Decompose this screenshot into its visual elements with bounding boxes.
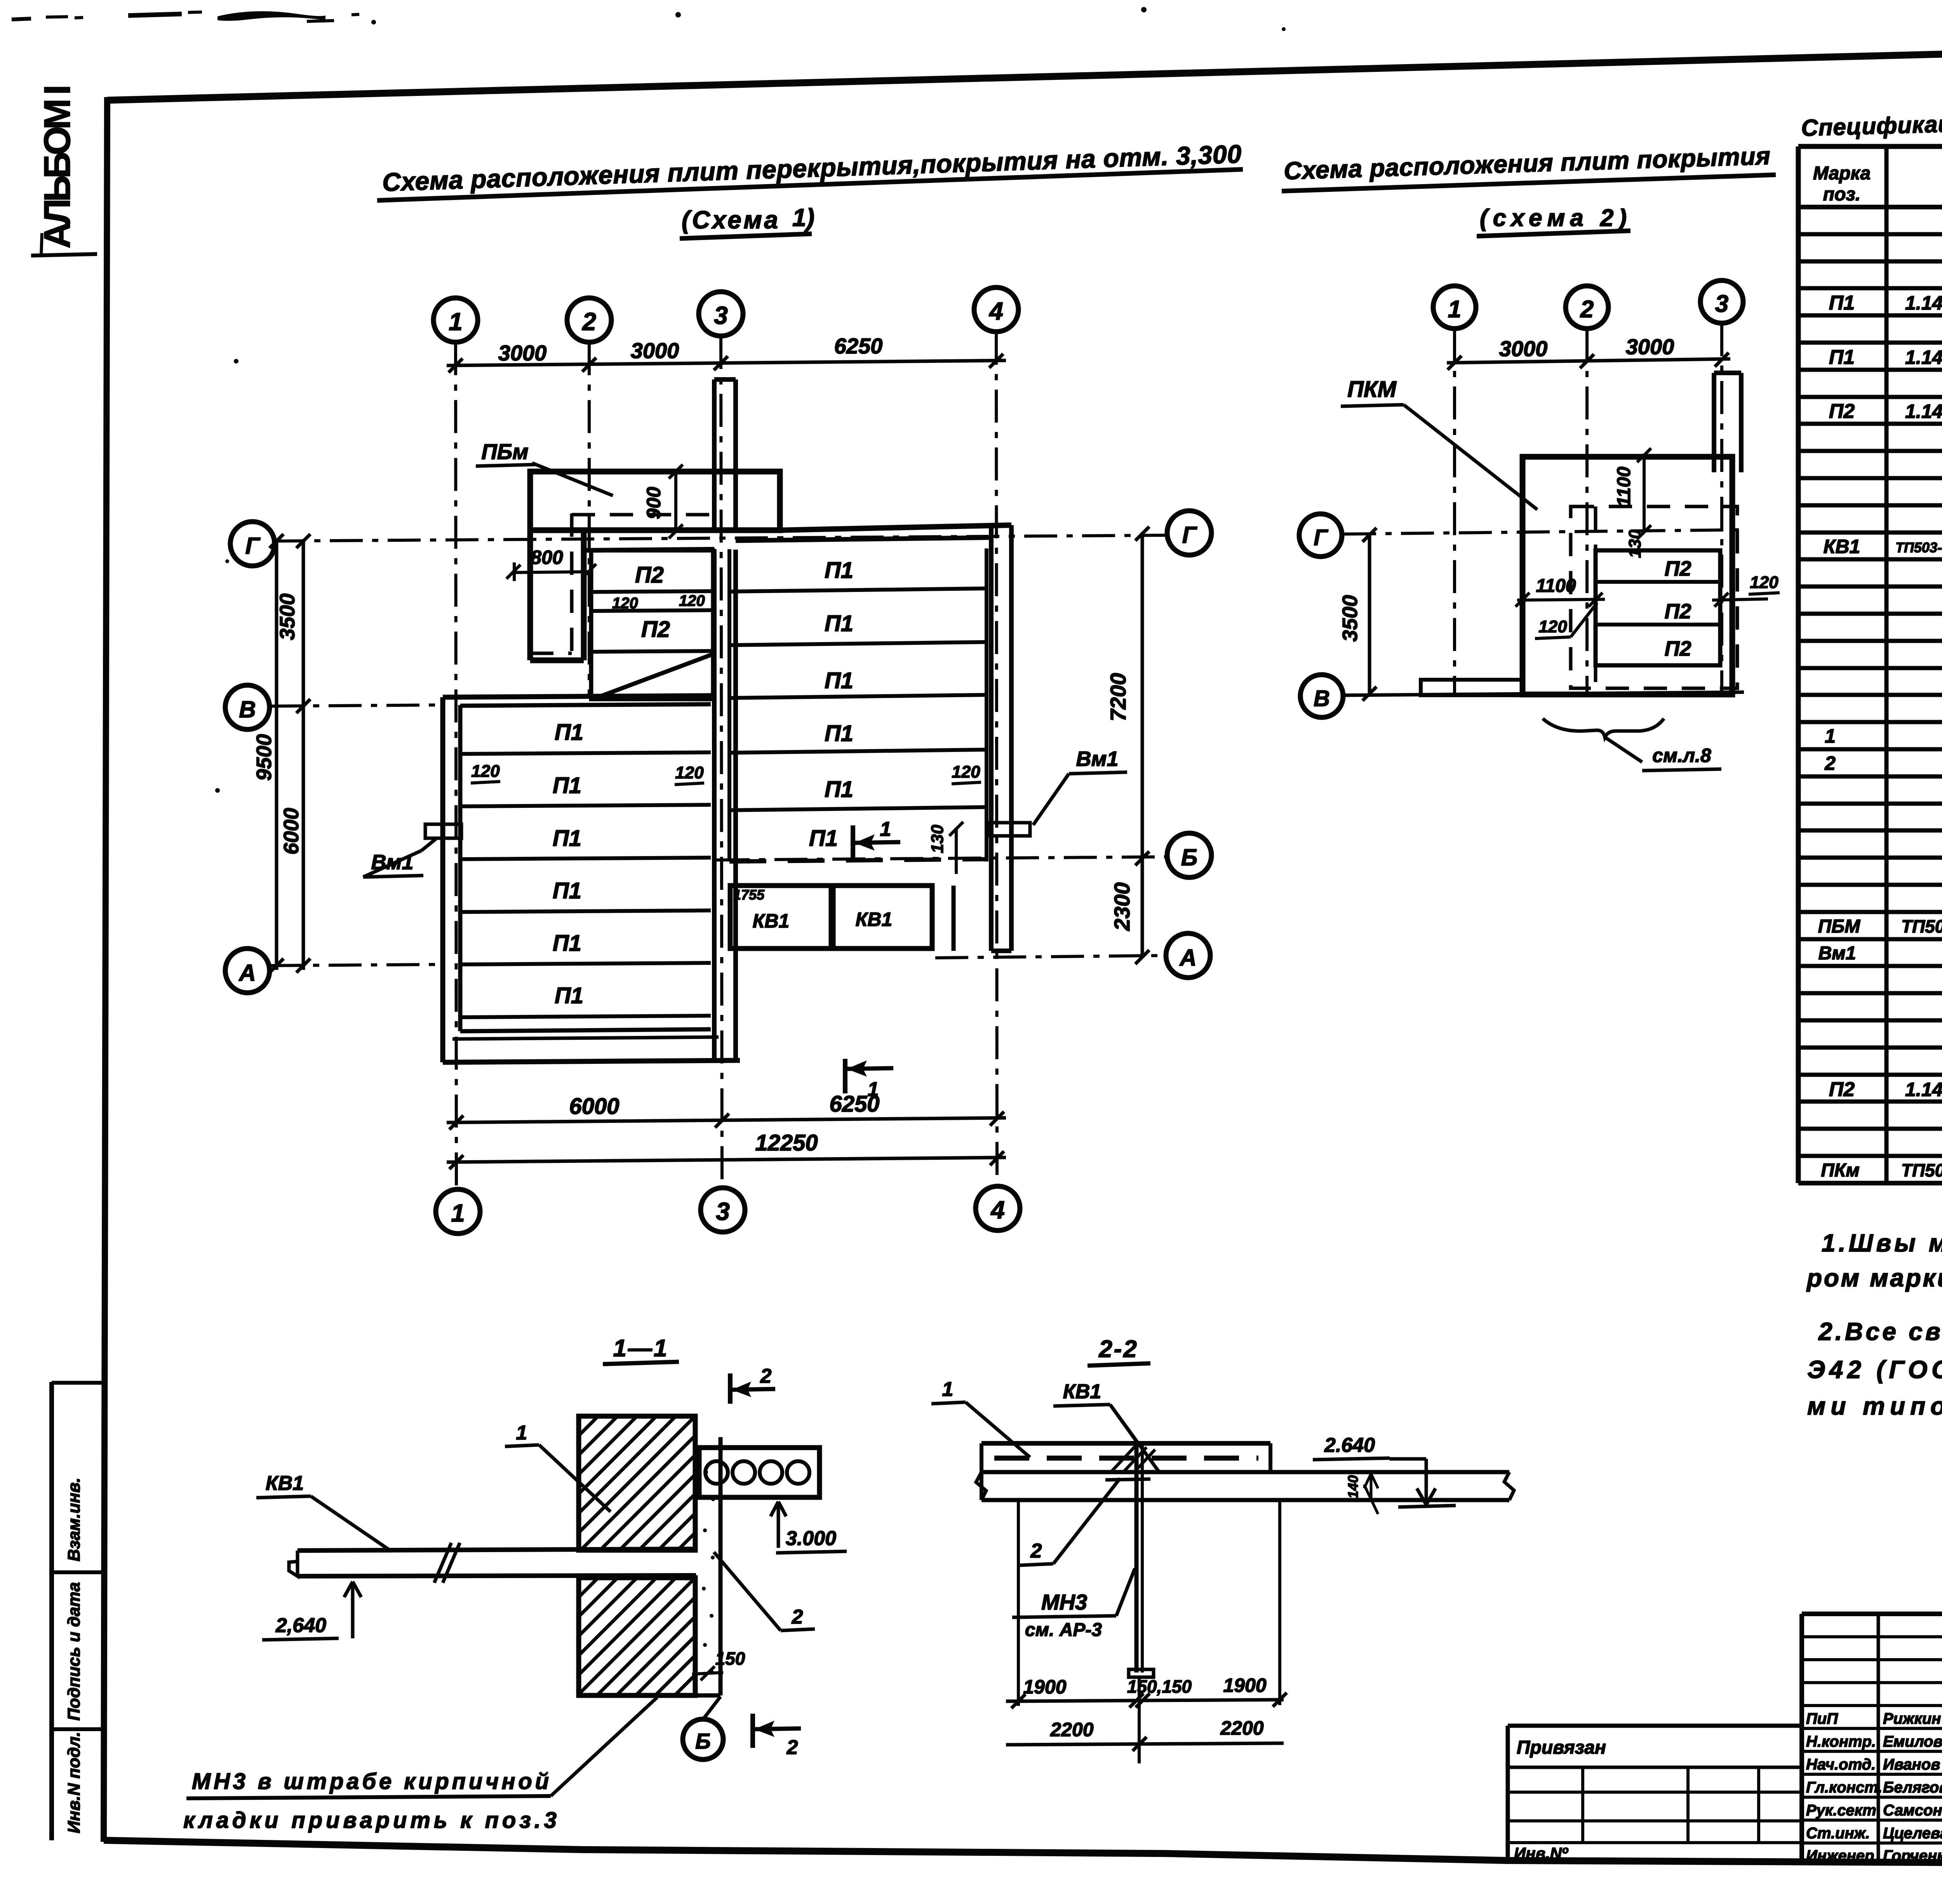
svg-text:П1: П1 xyxy=(553,878,581,903)
svg-text:В: В xyxy=(239,696,256,722)
axis 2 vertical dash-dot xyxy=(588,342,591,697)
s2 axis circle 3 xyxy=(1700,280,1743,323)
svg-text:(схема 2): (схема 2) xyxy=(1480,205,1627,231)
svg-text:1: 1 xyxy=(1825,725,1836,747)
s2 hidden wall dashed rect xyxy=(1571,506,1737,688)
svg-text:МН3: МН3 xyxy=(1041,1590,1087,1614)
s2 top dim line xyxy=(1447,359,1730,363)
left room P1 separators xyxy=(460,752,711,754)
left room bottom wall xyxy=(460,1029,711,1031)
svg-text:(Схема: (Схема xyxy=(682,206,779,234)
svg-text:П1: П1 xyxy=(1829,346,1855,369)
s2 dim 1100 vertical xyxy=(1643,454,1646,533)
left dim line outer 9500 xyxy=(275,539,278,970)
svg-text:Г: Г xyxy=(1314,525,1328,550)
svg-text:2200: 2200 xyxy=(1050,1719,1093,1740)
svg-text:Рук.сект: Рук.сект xyxy=(1806,1802,1876,1819)
svg-text:Ст.инж.: Ст.инж. xyxy=(1806,1825,1870,1842)
svg-text:Подпись и дата: Подпись и дата xyxy=(64,1582,84,1721)
s2 porch step xyxy=(1421,680,1523,695)
svg-text:Г: Г xyxy=(245,533,261,559)
2-2 hatch at KV1 bearing xyxy=(1112,1446,1155,1471)
svg-text:см. АР-3: см. АР-3 xyxy=(1025,1620,1102,1640)
PBM leader xyxy=(532,463,613,496)
s2 axis V line xyxy=(1344,692,1744,695)
svg-text:2: 2 xyxy=(1580,296,1594,323)
svg-text:Инв.N подл.: Инв.N подл. xyxy=(64,1732,84,1833)
svg-text:140: 140 xyxy=(1345,1475,1361,1498)
svg-text:3000: 3000 xyxy=(1499,336,1548,361)
svg-text:П1: П1 xyxy=(809,826,838,851)
svg-text:120: 120 xyxy=(675,763,704,782)
chimney strip on axis 3 xyxy=(712,379,717,530)
schema 2 subtitle underline xyxy=(1477,231,1631,236)
2-2 MN3 anchor vertical xyxy=(1135,1444,1139,1673)
svg-text:2-2: 2-2 xyxy=(1098,1336,1138,1363)
svg-text:1900: 1900 xyxy=(1023,1676,1066,1698)
svg-text:ПБм: ПБм xyxy=(481,439,528,464)
svg-text:В: В xyxy=(1314,686,1330,711)
s2 hidden wall dashed vertical xyxy=(1594,506,1597,688)
svg-text:2: 2 xyxy=(582,308,596,336)
svg-text:П1: П1 xyxy=(553,773,581,798)
svg-text:2.640: 2.640 xyxy=(1324,1434,1375,1457)
svg-text:КВ1: КВ1 xyxy=(1824,536,1860,557)
svg-text:ТП503-9-5.84ЮКИ1-КВ22а: ТП503-9-5.84ЮКИ1-КВ22а xyxy=(1895,537,1942,555)
section mark 1 below plan xyxy=(843,1059,847,1093)
sloped plate diagonal xyxy=(593,654,713,698)
s2 axis circle 2 xyxy=(1566,286,1608,329)
svg-text:П1: П1 xyxy=(553,826,581,851)
svg-text:поз.: поз. xyxy=(1823,184,1860,205)
top dimension line xyxy=(447,360,1006,365)
svg-text:А: А xyxy=(238,960,256,986)
svg-text:4: 4 xyxy=(988,297,1003,325)
drain Vm1 right stub xyxy=(990,823,1030,836)
section mark 2 bottom detail 1-1 xyxy=(750,1714,755,1748)
svg-text:4: 4 xyxy=(990,1196,1005,1224)
svg-text:КВ1: КВ1 xyxy=(753,910,790,932)
sheet frame left border xyxy=(104,97,107,1842)
s2 axis circle 1 xyxy=(1433,286,1476,329)
svg-text:Привязан: Привязан xyxy=(1517,1737,1606,1758)
right room P1 separators xyxy=(729,588,987,592)
svg-text:П2: П2 xyxy=(1665,637,1691,660)
svg-text:П1: П1 xyxy=(825,611,853,636)
svg-text:Марка: Марка xyxy=(1813,163,1871,184)
svg-text:А: А xyxy=(1179,945,1196,971)
svg-text:130: 130 xyxy=(928,825,947,853)
svg-text:Ццелева: Ццелева xyxy=(1883,1825,1942,1842)
PKM plate rect xyxy=(1523,457,1732,694)
svg-text:ПиП: ПиП xyxy=(1806,1710,1838,1727)
axis circle G left xyxy=(230,522,275,566)
signature table empty top rows xyxy=(1802,1635,1942,1638)
left stamp strip vertical line xyxy=(49,1382,54,1840)
right outer wall axis 4 xyxy=(989,525,994,951)
hollow core slab xyxy=(699,1448,820,1497)
axis circle 4 bottom xyxy=(976,1186,1020,1230)
svg-text:3: 3 xyxy=(1715,291,1728,317)
svg-text:3.000: 3.000 xyxy=(786,1527,836,1550)
bottom dimension line 12250 xyxy=(447,1157,1006,1162)
svg-text:П1: П1 xyxy=(555,720,583,745)
svg-text:1.141-1: 1.141-1 xyxy=(1905,1079,1942,1100)
s2 axis G dash-dot xyxy=(1343,530,1739,534)
svg-text:120: 120 xyxy=(679,592,705,609)
svg-text:6250: 6250 xyxy=(834,334,883,358)
hidden wall dashed vertical xyxy=(570,513,574,653)
2-2 slab band A xyxy=(981,1441,1270,1446)
axis 3 vertical dash-dot xyxy=(721,336,722,1187)
axis circle 1 top xyxy=(433,298,478,342)
svg-text:П2: П2 xyxy=(635,562,664,588)
schema 1 title underline xyxy=(377,169,1243,200)
svg-text:П1: П1 xyxy=(1829,292,1855,314)
svg-text:1: 1 xyxy=(868,1078,879,1101)
axis 1 vertical dash-dot xyxy=(456,342,456,1188)
svg-text:3500: 3500 xyxy=(1338,595,1362,642)
canopy plate KV1 right xyxy=(833,886,932,949)
s2 brace xyxy=(1543,719,1664,737)
svg-text:150: 150 xyxy=(715,1648,745,1669)
svg-text:Иванов: Иванов xyxy=(1883,1756,1940,1773)
P2 plate separator 2 xyxy=(591,610,713,611)
sheet frame top border xyxy=(107,38,1942,100)
s2 see sheet 8 leader xyxy=(1605,737,1642,762)
s2 left dim 3500 xyxy=(1368,534,1371,694)
svg-text:1: 1 xyxy=(451,1199,465,1227)
svg-text:2,640: 2,640 xyxy=(275,1614,326,1637)
axis 3 wall band xyxy=(712,549,717,1060)
PBM balcony plate left strip xyxy=(527,472,533,660)
svg-text:Рижкин: Рижкин xyxy=(1883,1710,1941,1727)
svg-text:800: 800 xyxy=(531,546,563,568)
svg-text:150,150: 150,150 xyxy=(1127,1676,1192,1697)
slab elevation 3.000 xyxy=(771,1502,786,1525)
svg-text:П1: П1 xyxy=(553,931,581,956)
axis circle 1 bottom xyxy=(436,1189,480,1234)
svg-text:Емиловский: Емиловский xyxy=(1883,1733,1942,1750)
svg-text:1.141-1: 1.141-1 xyxy=(1905,400,1942,422)
axis circle 3 bottom xyxy=(701,1188,745,1232)
svg-text:ПКм: ПКм xyxy=(1821,1160,1860,1181)
svg-text:120: 120 xyxy=(1538,617,1567,636)
svg-text:Б: Б xyxy=(695,1729,711,1753)
P2 plate separator 3 xyxy=(591,651,713,652)
s2 axis circle G xyxy=(1299,514,1342,557)
svg-text:АЛЬБОМ I: АЛЬБОМ I xyxy=(37,82,78,249)
canopy slab KV1 bar xyxy=(298,1549,696,1551)
svg-text:Инженер: Инженер xyxy=(1806,1847,1874,1864)
PBM balcony plate top rect xyxy=(530,472,780,530)
svg-text:ТП503-9-5.84: ТП503-9-5.84 xyxy=(1901,916,1942,936)
svg-text:П1: П1 xyxy=(825,777,853,802)
svg-text:1100: 1100 xyxy=(1536,576,1576,596)
left room outer wall xyxy=(440,697,445,1062)
schema 2 title underline xyxy=(1282,175,1776,191)
axis circle 4 top xyxy=(974,287,1018,332)
svg-text:120: 120 xyxy=(952,762,980,781)
sheet frame bottom border xyxy=(104,1840,1942,1865)
2-2 dim line 1900 150 150 1900 xyxy=(1006,1700,1284,1701)
svg-text:П2: П2 xyxy=(1829,400,1855,423)
svg-text:1: 1 xyxy=(516,1422,527,1444)
axis row A dash-dot left xyxy=(271,964,443,966)
hidden edge row B dashed xyxy=(729,859,987,861)
right room P1 right edge xyxy=(985,548,988,861)
svg-text:3000: 3000 xyxy=(498,341,547,365)
svg-text:1900: 1900 xyxy=(1223,1674,1266,1696)
svg-text:1: 1 xyxy=(1448,296,1461,323)
svg-text:Вм1: Вм1 xyxy=(1076,747,1119,771)
s2 axis verticals dash-dot xyxy=(1453,329,1456,695)
svg-text:7200: 7200 xyxy=(1106,673,1130,722)
svg-text:1100: 1100 xyxy=(1614,466,1634,507)
P2 block outline xyxy=(591,550,713,699)
svg-text:1.141-1: 1.141-1 xyxy=(1905,292,1942,314)
svg-text:Горченко: Горченко xyxy=(1883,1847,1942,1864)
left dim line inner 3500/6000 xyxy=(302,539,305,970)
signature table outline xyxy=(1799,1614,1804,1863)
tick under ALBOM label xyxy=(31,254,97,256)
svg-text:КВ1: КВ1 xyxy=(856,908,893,930)
axis row V dash-dot xyxy=(271,705,443,706)
section mark 1 inside plan xyxy=(851,825,855,859)
svg-text:2: 2 xyxy=(1824,752,1836,774)
svg-text:2: 2 xyxy=(760,1365,772,1387)
svg-text:Инв.Nº: Инв.Nº xyxy=(1514,1844,1568,1862)
svg-text:П2: П2 xyxy=(1665,600,1691,623)
wall band row G inner xyxy=(736,538,991,541)
canopy plate KV1 left xyxy=(730,886,831,949)
2-2 small right dim xyxy=(1364,1474,1378,1514)
svg-text:Вм1: Вм1 xyxy=(1818,943,1856,964)
svg-text:КВ1: КВ1 xyxy=(266,1472,304,1495)
schema 1 subtitle underline xyxy=(680,234,812,238)
monolithic strip right of wall xyxy=(719,1437,723,1695)
svg-text:Взам.инв.: Взам.инв. xyxy=(64,1478,84,1561)
dim 900 vertical xyxy=(674,472,677,531)
axis circle A left xyxy=(225,949,270,993)
svg-text:6000: 6000 xyxy=(280,808,303,855)
svg-text:3500: 3500 xyxy=(276,593,299,640)
svg-text:П1: П1 xyxy=(825,558,853,583)
P2 stack outline xyxy=(1596,550,1720,665)
svg-text:130: 130 xyxy=(1625,529,1644,558)
svg-text:П2: П2 xyxy=(641,617,670,642)
axis row A dash-dot right xyxy=(935,955,1165,958)
svg-text:3000: 3000 xyxy=(631,338,679,363)
svg-text:Г: Г xyxy=(1182,522,1198,548)
drain Vm1 left stub xyxy=(425,824,461,838)
scan noise dashes top-left xyxy=(12,19,31,19)
svg-text:П1: П1 xyxy=(555,983,583,1008)
svg-text:1: 1 xyxy=(449,308,463,336)
svg-text:2200: 2200 xyxy=(1220,1717,1263,1739)
signature table columns xyxy=(1877,1614,1880,1861)
svg-text:1: 1 xyxy=(880,818,891,841)
brick wall lower (hatched) xyxy=(579,1578,695,1695)
axis row B dash-dot xyxy=(717,857,1166,860)
hidden wall dashed bottom xyxy=(530,652,572,655)
svg-text:2300: 2300 xyxy=(1110,882,1134,931)
axis circle A right xyxy=(1166,933,1210,978)
svg-text:Нач.отд.: Нач.отд. xyxy=(1806,1756,1876,1773)
svg-text:Б: Б xyxy=(1181,844,1197,870)
top-right strip plate xyxy=(1712,373,1716,472)
axis circle G right xyxy=(1167,511,1211,555)
bottom dimension line 6000/6250 xyxy=(447,1118,1006,1123)
axis circle 2 top xyxy=(567,298,611,342)
P2 plate separator 1 xyxy=(591,591,713,592)
s2 axis circle V xyxy=(1300,675,1343,717)
axis circle B right xyxy=(1167,833,1211,877)
svg-text:Самсонова: Самсонова xyxy=(1883,1802,1942,1819)
table outer and column lines xyxy=(1796,146,1801,1183)
detail 1-1 section mark 2 top xyxy=(728,1373,733,1404)
svg-text:1: 1 xyxy=(942,1378,954,1401)
signature table name rows xyxy=(1802,1704,1942,1707)
svg-text:см.л.8: см.л.8 xyxy=(1652,745,1711,766)
svg-text:3000: 3000 xyxy=(1626,334,1674,359)
wall band row G outer xyxy=(584,549,714,550)
svg-text:Гл.конст.: Гл.конст. xyxy=(1806,1779,1882,1796)
2-2 dim line 2200 2200 xyxy=(1006,1743,1284,1745)
svg-text:1—1: 1—1 xyxy=(613,1335,669,1362)
2-2 band B xyxy=(981,1470,1509,1474)
svg-text:П2: П2 xyxy=(1829,1078,1855,1101)
brick wall upper (hatched) xyxy=(579,1416,695,1550)
svg-text:1755: 1755 xyxy=(733,887,765,903)
svg-text:Беляговский: Беляговский xyxy=(1883,1779,1942,1796)
P2 stack separators xyxy=(1596,580,1720,584)
svg-text:120: 120 xyxy=(471,762,500,781)
axis 4 vertical dash-dot xyxy=(996,332,997,1185)
svg-text:2: 2 xyxy=(787,1736,798,1759)
svg-text:П1: П1 xyxy=(825,721,853,746)
svg-text:ТП503-9-5,84: ТП503-9-5,84 xyxy=(1901,1160,1942,1180)
table row lines xyxy=(1798,205,1942,209)
svg-text:120: 120 xyxy=(1750,573,1778,592)
svg-text:1): 1) xyxy=(792,204,814,231)
axis row G dash-dot xyxy=(272,535,1166,541)
wall stub right of KV1 xyxy=(952,886,956,951)
svg-text:Н.контр.: Н.контр. xyxy=(1806,1733,1876,1750)
axis circle B detail 1-1 xyxy=(683,1719,723,1760)
svg-text:3: 3 xyxy=(714,301,728,329)
svg-text:2: 2 xyxy=(1030,1540,1042,1562)
svg-text:12250: 12250 xyxy=(755,1130,818,1156)
svg-text:1.141-1: 1.141-1 xyxy=(1905,346,1942,368)
svg-text:9500: 9500 xyxy=(252,734,276,781)
svg-text:П2: П2 xyxy=(1665,557,1691,580)
hidden wall dashed horizontal xyxy=(572,513,713,517)
svg-text:МН3 в штрабе кирпичной: МН3 в штрабе кирпичной xyxy=(192,1769,549,1794)
svg-text:П1: П1 xyxy=(825,668,853,693)
right dim line 7200/2300 xyxy=(1141,532,1144,957)
svg-text:ПБМ: ПБМ xyxy=(1818,916,1861,937)
axis circle 3 top xyxy=(699,292,743,336)
left stamp strip cell dividers xyxy=(52,1381,104,1385)
small table Privyazan xyxy=(1506,1726,1510,1861)
axis circle V left xyxy=(225,685,270,729)
right room left edge xyxy=(727,549,731,861)
svg-text:2: 2 xyxy=(792,1606,803,1628)
svg-text:3: 3 xyxy=(716,1197,730,1225)
svg-text:6000: 6000 xyxy=(569,1094,619,1119)
svg-text:ПКМ: ПКМ xyxy=(1347,377,1397,402)
svg-text:КВ1: КВ1 xyxy=(1063,1380,1101,1403)
svg-text:1.Швы между плитами заделать ц: 1.Швы между плитами заделать цементным р… xyxy=(1822,1229,1942,1257)
